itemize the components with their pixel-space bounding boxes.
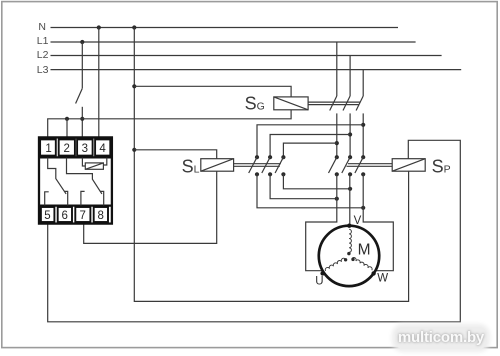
relay K1 body — [39, 137, 112, 223]
linkage SP — [347, 164, 393, 167]
relay contact pole pin 1 — [48, 158, 66, 194]
wire L2 phase drop B — [349, 56, 351, 97]
motor terminal U dot — [320, 271, 324, 275]
motor terminal W dot — [371, 271, 375, 275]
svg-text:W: W — [377, 272, 388, 284]
relay contact seat pin 6 — [64, 191, 67, 205]
relay contact pole pin 2 — [67, 158, 102, 194]
svg-text:1: 1 — [45, 143, 51, 155]
contact SG phase C — [356, 96, 363, 111]
svg-text:7: 7 — [80, 210, 86, 222]
svg-text:SP: SP — [432, 156, 451, 176]
wire N tap to SL coil top — [134, 150, 216, 159]
contact SL right — [275, 155, 285, 176]
junction phase C crossover — [361, 123, 365, 127]
wire phase C to motor W — [363, 174, 393, 270]
wire crossover B to SL mid — [270, 135, 350, 158]
svg-text:L1: L1 — [37, 35, 49, 47]
svg-text:M: M — [358, 242, 371, 259]
motor winding V — [349, 229, 351, 252]
junction on phase A — [335, 197, 339, 201]
svg-text:SG: SG — [245, 94, 265, 114]
contact SL mid — [262, 155, 272, 176]
relay contact seat pin 8 — [100, 191, 103, 205]
wire switch to terminal 3 — [81, 107, 83, 137]
junction on phase B — [348, 187, 352, 191]
junction L1 tap — [80, 40, 84, 44]
relay contact seat pin 7 — [81, 191, 85, 205]
relay coil — [85, 163, 103, 169]
wire SP coil top to terminal 5 — [48, 140, 461, 321]
relay terminal box 6 — [58, 207, 72, 222]
junction N main drop — [132, 25, 136, 29]
contact SG phase B — [343, 96, 350, 111]
contact SP right — [355, 155, 365, 176]
wire crossover A to SL right — [283, 143, 336, 157]
motor winding W — [352, 258, 372, 271]
motor star point dots — [344, 252, 355, 262]
linkage SG — [308, 102, 360, 105]
contact SP mid — [342, 155, 352, 176]
wire L3 bus — [51, 69, 462, 71]
contact SG phase A — [330, 96, 337, 111]
svg-text:3: 3 — [82, 143, 88, 155]
wire L1 phase drop A — [336, 42, 338, 96]
motor terminal V dot — [347, 224, 351, 228]
junction phase B crossover — [348, 132, 352, 136]
linkage SL — [234, 164, 281, 167]
svg-text:L2: L2 — [37, 49, 49, 61]
junction switch wire and SG bottom bus — [80, 117, 84, 121]
wire SL left bottom to phase C — [257, 174, 363, 208]
motor M1 circle — [319, 226, 379, 286]
relay terminal box 7 — [75, 207, 90, 222]
wire phase A mid — [336, 113, 338, 157]
wire crossover C to SL left — [257, 125, 363, 157]
wire phase C mid — [362, 113, 364, 157]
contact SL left — [249, 155, 259, 176]
wire L1 bus — [51, 41, 416, 43]
wire terminal 1 to SG coil bottom — [48, 110, 291, 137]
wire phase B mid — [349, 113, 351, 157]
contactor coil SG — [274, 97, 308, 110]
wire SL mid bottom to phase A — [270, 174, 337, 198]
relay terminal box 2 — [59, 139, 75, 155]
junction on phase C — [361, 206, 365, 210]
wire SL coil bottom to terminal 7 — [84, 171, 217, 243]
watermark multicom.by — [395, 327, 487, 349]
relay terminal box 5 — [41, 207, 55, 222]
relay terminal box 3 — [77, 139, 93, 155]
contact SP left — [329, 155, 339, 176]
svg-text:8: 8 — [98, 210, 104, 222]
relay coil wire pin 4 — [103, 158, 106, 165]
svg-text:SL: SL — [182, 156, 200, 176]
junction N to terminal 4 — [97, 25, 101, 29]
wire N to SG coil top — [134, 86, 291, 97]
relay terminal box 1 — [40, 139, 56, 155]
wire phase B to motor V — [349, 174, 351, 225]
wire N to terminal 4 — [98, 28, 100, 138]
junction N drop to SG coil — [132, 84, 136, 88]
wire N bus — [51, 27, 399, 29]
wire phase A to motor U — [306, 174, 337, 270]
junction phase A crossover — [335, 141, 339, 145]
svg-text:V: V — [354, 215, 362, 227]
contactor coil SP — [392, 159, 425, 172]
svg-text:L3: L3 — [37, 64, 49, 76]
junction terminal 2 tap — [65, 117, 69, 121]
svg-text:4: 4 — [99, 143, 106, 155]
switch blade manual switch — [76, 89, 83, 104]
svg-text:5: 5 — [44, 210, 50, 222]
motor winding U — [325, 258, 345, 271]
wire L3 phase drop C — [362, 70, 364, 96]
relay terminal box 8 — [94, 207, 108, 222]
junction N drop to SL coil — [132, 148, 136, 152]
relay terminal box 4 — [95, 139, 110, 155]
svg-text:2: 2 — [64, 143, 70, 155]
wire SL right bottom to phase B — [283, 174, 350, 189]
svg-text:6: 6 — [62, 210, 68, 222]
relay contact seat pin 5 — [45, 192, 49, 206]
wire L1 to switch — [81, 42, 83, 89]
wire terminal 2 riser — [66, 119, 68, 137]
wire N drop to SP coil bottom — [134, 28, 408, 302]
svg-text:U: U — [315, 276, 323, 288]
wire L2 bus — [51, 55, 442, 57]
relay coil wire pin 3 — [82, 158, 85, 166]
svg-text:N: N — [38, 21, 46, 33]
contactor coil SL — [201, 159, 234, 172]
